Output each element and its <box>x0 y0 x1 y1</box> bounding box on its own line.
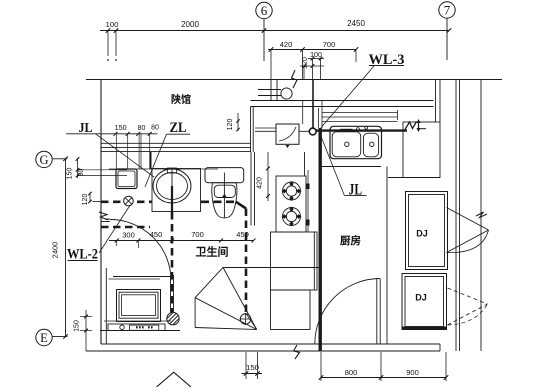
svg-text:900: 900 <box>406 368 419 377</box>
svg-text:450: 450 <box>150 230 163 239</box>
svg-text:2400: 2400 <box>51 242 60 259</box>
svg-text:80: 80 <box>138 125 146 132</box>
svg-text:JL: JL <box>349 182 363 199</box>
svg-text:100: 100 <box>310 52 322 59</box>
svg-text:700: 700 <box>323 40 336 49</box>
svg-text:6: 6 <box>261 3 268 18</box>
svg-text:700: 700 <box>191 230 204 239</box>
svg-text:100: 100 <box>106 20 119 29</box>
svg-text:2450: 2450 <box>347 19 365 28</box>
svg-text:E: E <box>40 331 48 345</box>
svg-text:420: 420 <box>257 177 264 189</box>
svg-text:120: 120 <box>82 194 89 206</box>
svg-text:420: 420 <box>280 40 293 49</box>
svg-text:DJ: DJ <box>415 293 427 303</box>
svg-text:150: 150 <box>246 363 259 372</box>
svg-text:150: 150 <box>115 125 127 132</box>
svg-text:ZL: ZL <box>170 120 187 136</box>
svg-text:2000: 2000 <box>181 20 199 29</box>
svg-text:120: 120 <box>227 119 234 131</box>
svg-text:卫生间: 卫生间 <box>196 245 229 259</box>
svg-text:150: 150 <box>74 320 81 332</box>
svg-text:150: 150 <box>67 168 74 180</box>
svg-text:厨房: 厨房 <box>340 234 361 247</box>
svg-text:800: 800 <box>345 368 358 377</box>
svg-text:300: 300 <box>122 231 135 240</box>
svg-text:G: G <box>39 153 48 167</box>
svg-text:80: 80 <box>151 125 159 132</box>
svg-text:JL: JL <box>79 121 93 136</box>
svg-text:DJ: DJ <box>416 229 428 239</box>
svg-text:7: 7 <box>444 3 451 18</box>
svg-text:陕馆: 陕馆 <box>171 93 191 106</box>
